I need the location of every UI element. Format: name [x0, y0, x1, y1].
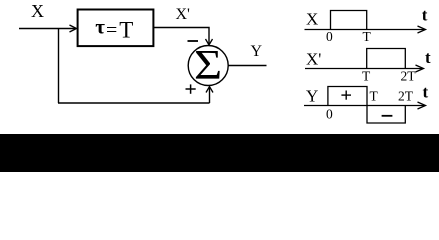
svg-text:T: T: [363, 29, 372, 44]
svg-text:=: =: [106, 19, 117, 41]
svg-text:2T: 2T: [398, 89, 414, 104]
svg-text:Σ: Σ: [194, 42, 222, 88]
svg-text:0: 0: [326, 107, 333, 122]
svg-text:X': X': [306, 50, 321, 69]
svg-text:0: 0: [326, 29, 333, 44]
svg-text:t: t: [422, 6, 428, 25]
svg-text:T: T: [119, 18, 133, 43]
svg-text:X: X: [31, 1, 44, 21]
svg-text:Y: Y: [306, 86, 318, 105]
svg-text:Y: Y: [251, 43, 263, 60]
svg-text:X': X': [176, 6, 191, 23]
svg-text:T: T: [362, 69, 371, 84]
svg-text:τ: τ: [95, 14, 105, 38]
svg-text:t: t: [425, 48, 431, 67]
svg-text:X: X: [306, 10, 318, 29]
svg-text:T: T: [370, 89, 379, 104]
svg-text:t: t: [423, 83, 429, 102]
svg-text:2T: 2T: [401, 69, 417, 84]
